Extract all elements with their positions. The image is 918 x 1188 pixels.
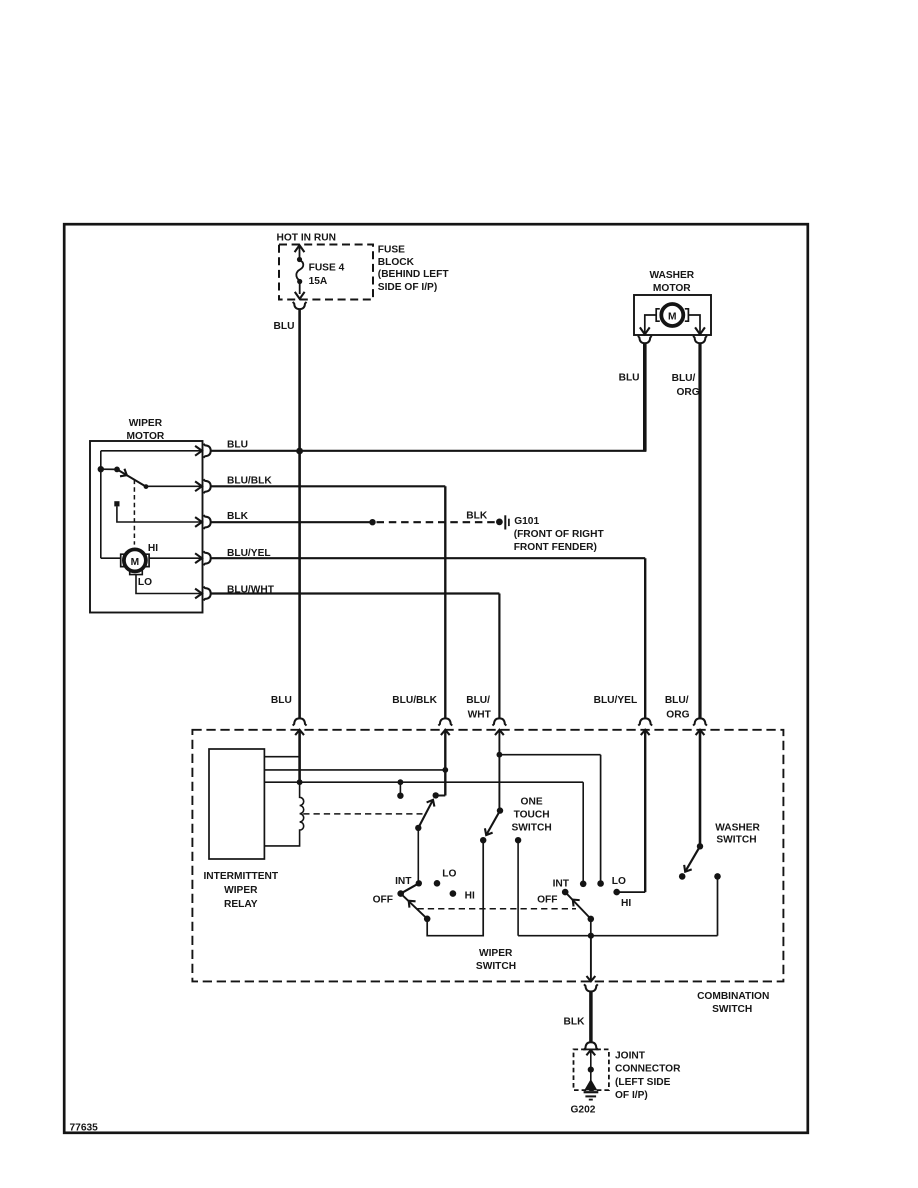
svg-text:HI: HI (465, 891, 475, 902)
svg-text:INTERMITTENT: INTERMITTENT (203, 871, 278, 882)
svg-text:COMBINATION: COMBINATION (697, 991, 769, 1002)
svg-text:15A: 15A (309, 276, 328, 287)
svg-text:BLK: BLK (227, 511, 249, 522)
svg-text:BLU: BLU (274, 321, 295, 332)
svg-text:WIPER: WIPER (224, 885, 258, 896)
svg-text:WIPER: WIPER (129, 418, 163, 429)
svg-text:BLU/BLK: BLU/BLK (227, 476, 272, 487)
svg-text:HI: HI (148, 543, 158, 554)
svg-text:WIPER: WIPER (479, 948, 513, 959)
svg-text:G101: G101 (514, 516, 539, 527)
svg-text:BLOCK: BLOCK (378, 257, 415, 268)
svg-text:LO: LO (442, 868, 456, 879)
svg-text:BLU/YEL: BLU/YEL (594, 695, 638, 706)
svg-text:WHT: WHT (468, 709, 492, 720)
svg-text:RELAY: RELAY (224, 899, 258, 910)
svg-text:OFF: OFF (537, 894, 557, 905)
svg-text:BLU/: BLU/ (672, 373, 696, 384)
svg-text:BLU: BLU (227, 439, 248, 450)
svg-text:JOINT: JOINT (615, 1051, 646, 1062)
svg-text:CONNECTOR: CONNECTOR (615, 1064, 681, 1075)
svg-text:FUSE: FUSE (378, 245, 405, 256)
svg-text:SWITCH: SWITCH (716, 834, 756, 845)
svg-text:BLU/: BLU/ (466, 695, 490, 706)
svg-text:(BEHIND LEFT: (BEHIND LEFT (378, 269, 450, 280)
svg-text:SWITCH: SWITCH (476, 961, 516, 972)
svg-text:77635: 77635 (70, 1123, 99, 1134)
svg-text:M: M (131, 557, 140, 568)
svg-text:HOT IN RUN: HOT IN RUN (277, 232, 336, 243)
svg-text:MOTOR: MOTOR (653, 283, 691, 294)
svg-text:BLU/BLK: BLU/BLK (392, 695, 437, 706)
svg-text:FRONT FENDER): FRONT FENDER) (514, 542, 597, 553)
svg-text:SWITCH: SWITCH (512, 823, 552, 834)
svg-text:HI: HI (621, 898, 631, 909)
svg-text:G202: G202 (571, 1105, 596, 1116)
svg-text:ORG: ORG (677, 387, 700, 398)
svg-text:SWITCH: SWITCH (712, 1004, 752, 1015)
svg-text:BLU: BLU (271, 695, 292, 706)
svg-text:WASHER: WASHER (649, 270, 694, 281)
svg-text:(FRONT OF RIGHT: (FRONT OF RIGHT (514, 529, 605, 540)
svg-text:FUSE 4: FUSE 4 (309, 262, 345, 273)
svg-text:INT: INT (395, 876, 412, 887)
svg-text:(LEFT SIDE: (LEFT SIDE (615, 1077, 671, 1088)
svg-text:LO: LO (138, 577, 152, 588)
svg-text:INT: INT (553, 879, 570, 890)
svg-text:BLK: BLK (564, 1017, 586, 1028)
svg-text:SIDE OF I/P): SIDE OF I/P) (378, 282, 437, 293)
svg-text:OF I/P): OF I/P) (615, 1090, 648, 1101)
svg-text:M: M (668, 311, 677, 322)
svg-text:BLU/: BLU/ (665, 695, 689, 706)
svg-text:ONE: ONE (521, 796, 543, 807)
svg-text:ORG: ORG (666, 709, 689, 720)
svg-text:LO: LO (612, 876, 626, 887)
svg-text:WASHER: WASHER (715, 822, 760, 833)
svg-text:BLU: BLU (619, 372, 640, 383)
svg-text:TOUCH: TOUCH (514, 810, 550, 821)
svg-text:OFF: OFF (373, 895, 393, 906)
svg-text:BLK: BLK (466, 511, 488, 522)
